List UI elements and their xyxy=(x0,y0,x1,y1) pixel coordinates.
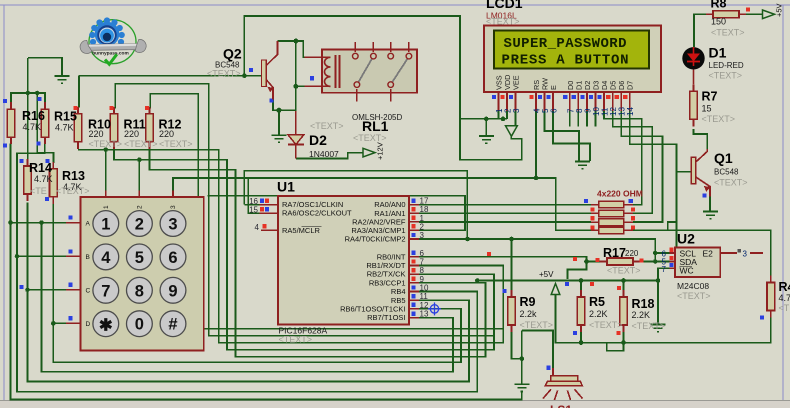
svg-text:VEE: VEE xyxy=(512,75,521,90)
svg-text:LCD1: LCD1 xyxy=(486,0,523,11)
svg-text:4.7: 4.7 xyxy=(779,293,790,303)
svg-text:15: 15 xyxy=(702,104,712,114)
svg-text:14: 14 xyxy=(626,107,635,116)
svg-text:<TEXT>: <TEXT> xyxy=(711,28,745,38)
svg-text:R9: R9 xyxy=(520,295,536,309)
svg-text:SUPER_PASSWORD: SUPER_PASSWORD xyxy=(504,36,627,52)
svg-text:13: 13 xyxy=(420,310,429,319)
svg-text:R17: R17 xyxy=(603,246,626,260)
svg-text:<TEXT>: <TEXT> xyxy=(486,17,520,27)
svg-text:C: C xyxy=(86,288,91,295)
svg-text:7: 7 xyxy=(101,282,110,300)
svg-text:D: D xyxy=(86,321,91,328)
svg-text:6: 6 xyxy=(550,108,559,113)
svg-text:Q1: Q1 xyxy=(714,150,733,166)
svg-text:RA4/T0CKI/CMP2: RA4/T0CKI/CMP2 xyxy=(345,235,406,244)
svg-text:11: 11 xyxy=(420,292,429,301)
svg-text:RB2/TX/CK: RB2/TX/CK xyxy=(367,270,406,279)
svg-text:U2: U2 xyxy=(677,231,695,247)
svg-text:220: 220 xyxy=(159,129,174,139)
svg-text:PRESS A BUTTON: PRESS A BUTTON xyxy=(502,53,629,69)
svg-text:bunnypass.com: bunnypass.com xyxy=(92,50,129,56)
svg-text:<TEXT>: <TEXT> xyxy=(677,291,711,301)
svg-text:B: B xyxy=(86,254,90,261)
svg-text:U1: U1 xyxy=(277,179,295,195)
svg-text:R15: R15 xyxy=(54,110,77,124)
svg-text:D2: D2 xyxy=(309,132,327,148)
svg-text:2.2K: 2.2K xyxy=(632,310,651,320)
svg-text:✱: ✱ xyxy=(99,317,113,335)
svg-text:D7: D7 xyxy=(626,81,635,90)
svg-text:4: 4 xyxy=(255,223,260,232)
svg-text:<TEXT>: <TEXT> xyxy=(589,320,623,330)
svg-text:2.2k: 2.2k xyxy=(520,309,538,319)
svg-text:R8: R8 xyxy=(711,0,727,11)
svg-text:220: 220 xyxy=(124,129,139,139)
svg-text:15: 15 xyxy=(249,206,258,215)
svg-text:<TEXT>: <TEXT> xyxy=(702,114,736,124)
svg-text:RA5/MCLR: RA5/MCLR xyxy=(282,226,321,235)
svg-text:<TEXT>: <TEXT> xyxy=(279,335,313,345)
svg-text:8: 8 xyxy=(420,266,425,275)
svg-text:BC548: BC548 xyxy=(714,168,739,177)
svg-text:Q2: Q2 xyxy=(223,46,242,62)
svg-text:LS1: LS1 xyxy=(550,403,572,408)
svg-text:R18: R18 xyxy=(632,297,655,311)
svg-text:RB6/T1OSO/T1CKI: RB6/T1OSO/T1CKI xyxy=(340,305,405,314)
svg-text:<TEXT>: <TEXT> xyxy=(89,139,123,149)
svg-text:0: 0 xyxy=(135,316,144,334)
svg-text:<TE: <TE xyxy=(30,186,47,196)
svg-text:4.7K: 4.7K xyxy=(23,122,42,132)
svg-text:RB3/CCP1: RB3/CCP1 xyxy=(369,278,406,287)
svg-text:9: 9 xyxy=(168,282,177,300)
svg-text:1: 1 xyxy=(101,216,110,234)
svg-text:6: 6 xyxy=(420,249,425,258)
svg-text:4.7K: 4.7K xyxy=(55,123,74,133)
svg-text:3: 3 xyxy=(743,250,748,259)
svg-text:RB7/T1OSI: RB7/T1OSI xyxy=(367,313,405,322)
svg-text:150: 150 xyxy=(711,17,726,27)
svg-text:<TEXT>: <TEXT> xyxy=(520,320,554,330)
svg-text:9: 9 xyxy=(420,275,425,284)
svg-text:<TEXT>: <TEXT> xyxy=(207,69,241,79)
svg-text:<TEXT>: <TEXT> xyxy=(56,186,90,196)
svg-text:+12V: +12V xyxy=(376,142,385,160)
svg-text:4: 4 xyxy=(101,249,111,267)
svg-text:3: 3 xyxy=(168,216,177,234)
svg-text:3: 3 xyxy=(512,108,521,113)
svg-text:2.2K: 2.2K xyxy=(589,309,608,319)
svg-text:R4: R4 xyxy=(779,280,790,294)
svg-text:<TEXT>: <TEXT> xyxy=(159,139,193,149)
svg-text:R7: R7 xyxy=(702,90,718,104)
svg-text:R5: R5 xyxy=(589,295,605,309)
svg-text:<TEXT>: <TEXT> xyxy=(310,121,344,131)
svg-text:RL1: RL1 xyxy=(362,118,389,134)
svg-text:<T: <T xyxy=(779,303,790,313)
svg-text:220: 220 xyxy=(89,129,104,139)
svg-text:+5V: +5V xyxy=(775,3,784,17)
svg-text:4x220 OHM: 4x220 OHM xyxy=(597,189,643,199)
svg-text:12: 12 xyxy=(420,301,429,310)
svg-text:5: 5 xyxy=(135,249,144,267)
svg-text:2: 2 xyxy=(136,205,143,209)
svg-text:3: 3 xyxy=(170,205,177,209)
svg-text:RA6/OSC2/CLKOUT: RA6/OSC2/CLKOUT xyxy=(282,209,352,218)
svg-text:<TEXT>: <TEXT> xyxy=(632,321,666,331)
svg-text:<TEXT>: <TEXT> xyxy=(353,133,387,143)
svg-text:1: 1 xyxy=(103,205,110,209)
svg-text:220: 220 xyxy=(625,249,639,258)
svg-text:4.7K: 4.7K xyxy=(34,174,53,184)
svg-text:RB5: RB5 xyxy=(391,296,406,305)
svg-text:#: # xyxy=(168,316,177,334)
svg-text:R16: R16 xyxy=(22,109,45,123)
svg-text:7: 7 xyxy=(662,265,667,274)
svg-text:E2: E2 xyxy=(703,249,714,259)
svg-text:D1: D1 xyxy=(709,45,727,61)
svg-text:2: 2 xyxy=(135,216,144,234)
svg-text:8: 8 xyxy=(135,282,144,300)
svg-text:A: A xyxy=(86,221,91,228)
svg-text:+5V: +5V xyxy=(539,270,554,279)
svg-text:M24C08: M24C08 xyxy=(677,281,709,291)
svg-text:<TEXT>: <TEXT> xyxy=(607,266,641,276)
svg-text:R13: R13 xyxy=(62,169,85,183)
svg-text:E: E xyxy=(549,85,558,90)
svg-text:<TEXT>: <TEXT> xyxy=(124,139,158,149)
svg-text:<TEXT>: <TEXT> xyxy=(714,178,748,188)
svg-text:10: 10 xyxy=(420,284,429,293)
svg-text:1N4007: 1N4007 xyxy=(309,149,339,159)
svg-text:LED-RED: LED-RED xyxy=(709,61,744,70)
svg-text:3: 3 xyxy=(420,231,425,240)
svg-text:6: 6 xyxy=(168,249,177,267)
svg-text:RB4: RB4 xyxy=(391,287,406,296)
svg-text:<TEXT>: <TEXT> xyxy=(709,71,743,81)
svg-text:RB0/INT: RB0/INT xyxy=(377,252,406,261)
